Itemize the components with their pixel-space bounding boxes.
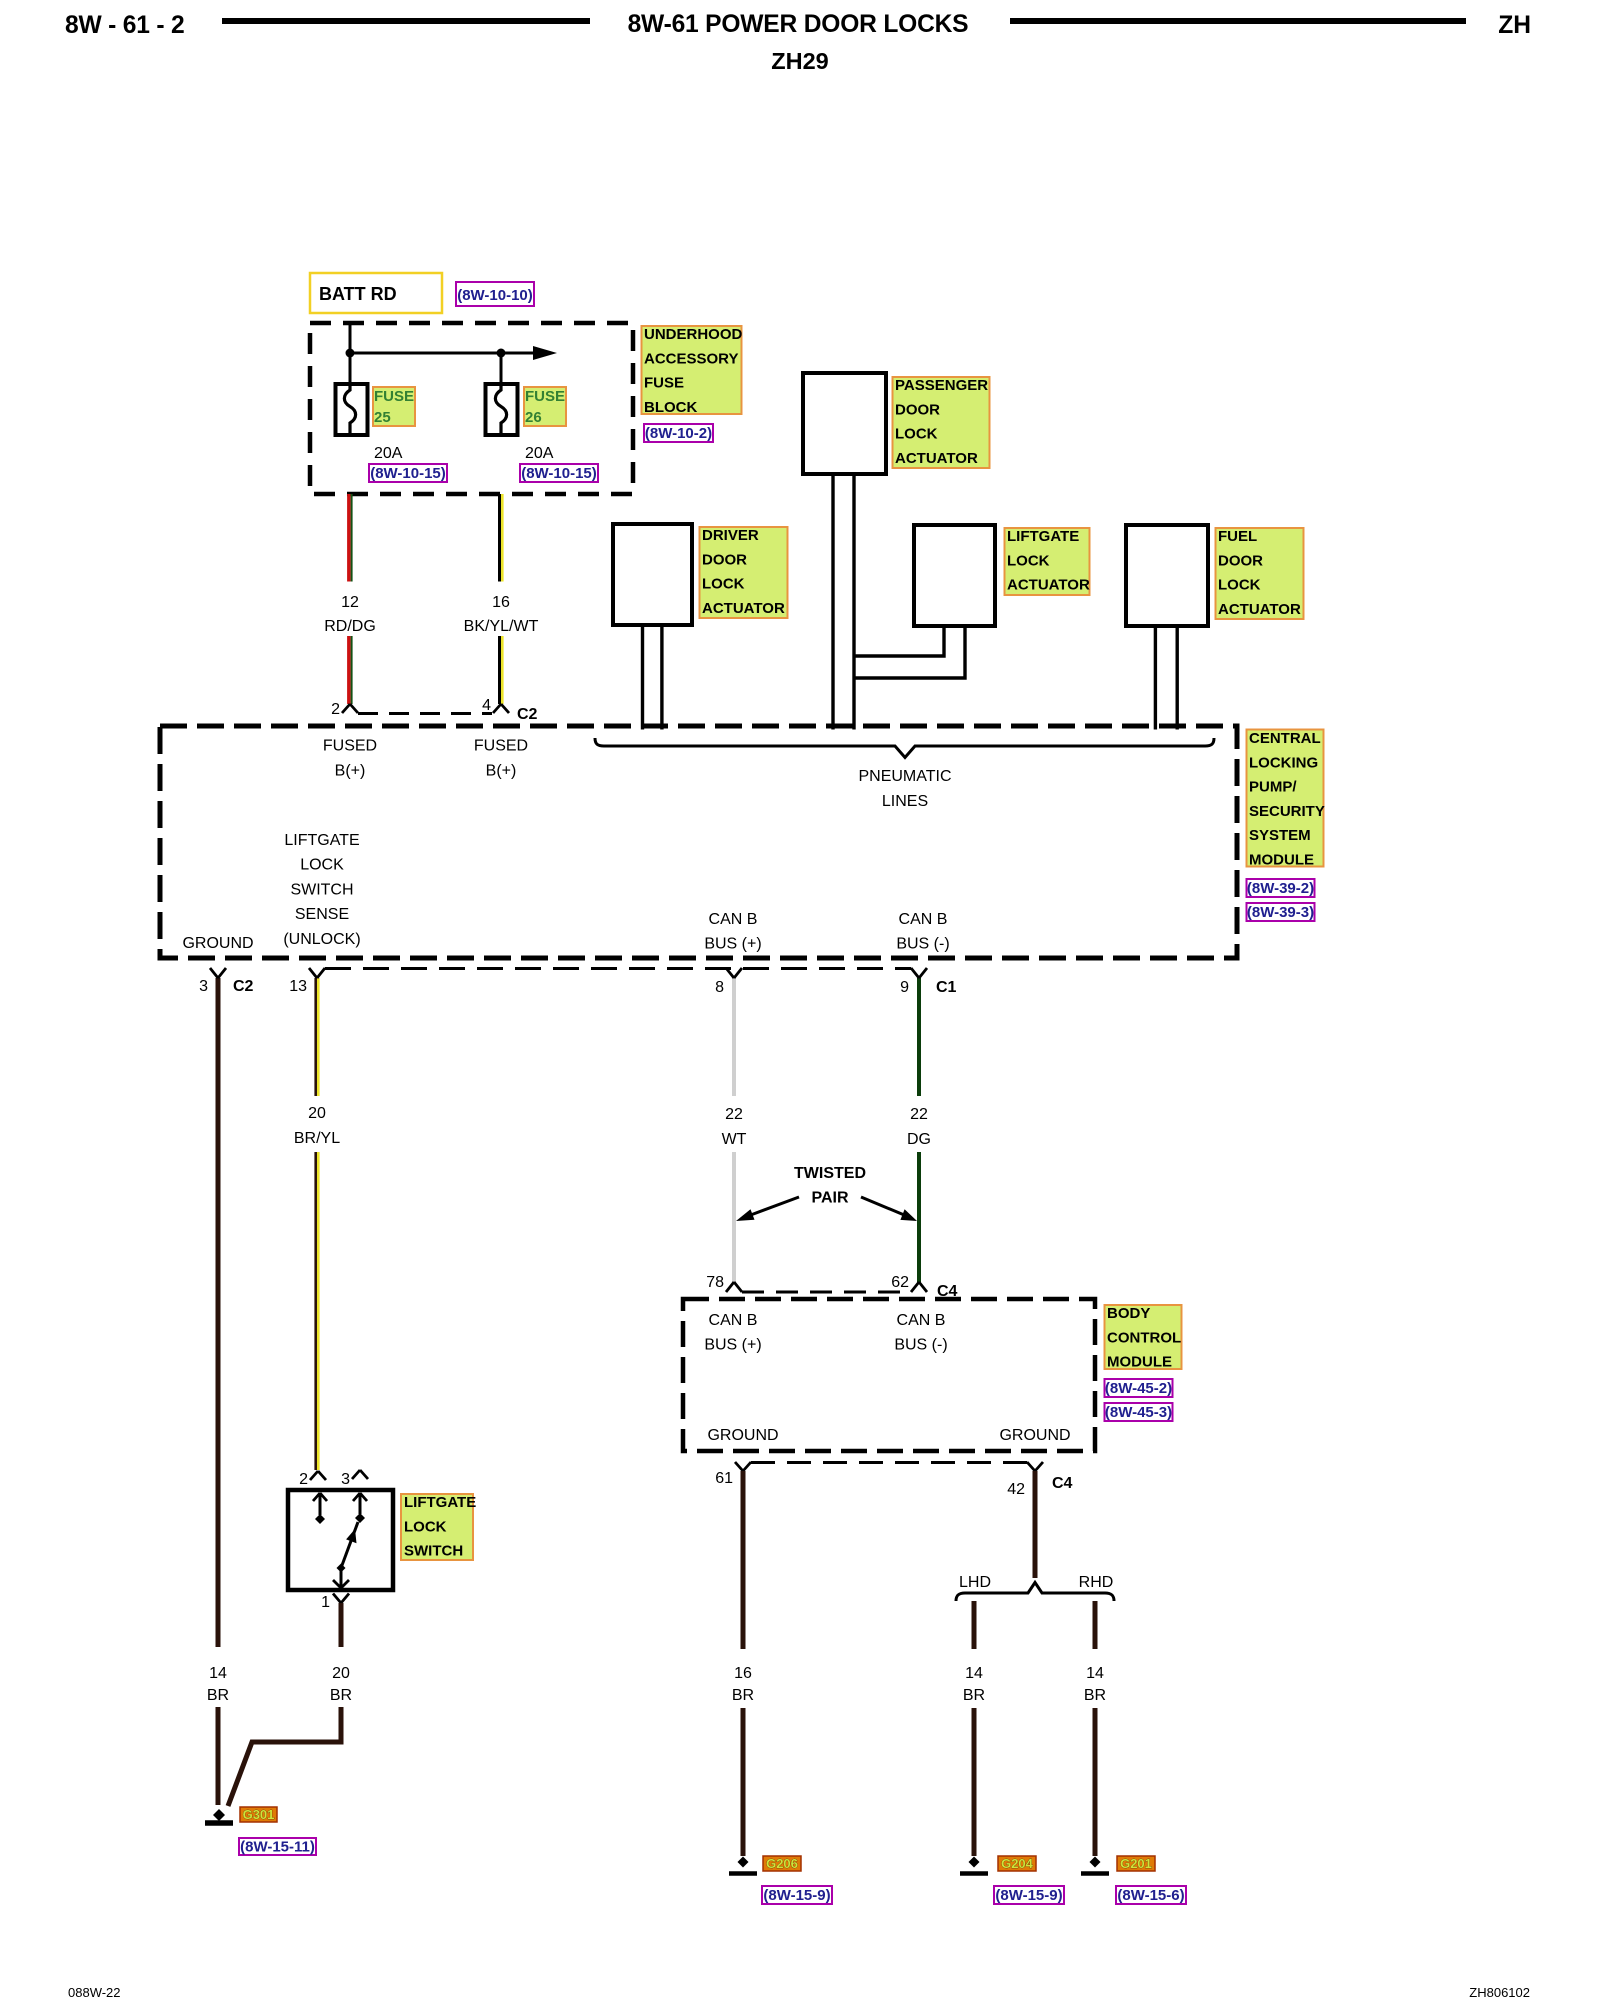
passenger door lock actuator box [803, 373, 886, 474]
svg-text:16: 16 [734, 1665, 752, 1682]
link 8W-15-9 (G206) [762, 1886, 832, 1904]
label G301 [240, 1807, 277, 1822]
svg-text:088W-22: 088W-22 [68, 1985, 121, 2000]
body control module dashed box [683, 1299, 1095, 1451]
svg-text:(8W-10-10): (8W-10-10) [457, 287, 533, 304]
node BATT RD [310, 273, 442, 313]
svg-text:9: 9 [900, 979, 909, 996]
wire batt feed into fuse 25 [349, 323, 352, 384]
svg-text:ZH: ZH [1498, 12, 1531, 39]
svg-text:DG: DG [907, 1131, 931, 1148]
svg-text:CAN B: CAN B [709, 911, 758, 928]
switch lever with arrowhead [341, 1522, 358, 1568]
driver door lock actuator box [613, 524, 692, 625]
svg-text:MODULE: MODULE [1249, 852, 1314, 869]
svg-text:2: 2 [331, 701, 340, 718]
wire into fuse 26 [500, 353, 503, 384]
svg-text:(8W-15-6): (8W-15-6) [1117, 1887, 1184, 1904]
label G204 [998, 1856, 1036, 1871]
link 8W-10-10 [456, 282, 534, 306]
svg-text:DOOR: DOOR [702, 551, 747, 568]
wire BR LHD (lower) [972, 1708, 977, 1856]
pneumatic line (liftgate left) joining passenger line [854, 626, 944, 656]
svg-text:FUSE: FUSE [525, 388, 565, 405]
svg-text:20: 20 [308, 1105, 326, 1122]
label FUSE 26 [524, 387, 566, 426]
svg-text:4: 4 [482, 697, 491, 714]
header right rule [1010, 18, 1466, 24]
svg-text:BLOCK: BLOCK [644, 399, 697, 416]
wire BR/YL from pin 13 (lower) [316, 1152, 319, 1470]
svg-text:(8W-15-9): (8W-15-9) [763, 1887, 830, 1904]
svg-text:(8W-15-9): (8W-15-9) [995, 1887, 1062, 1904]
svg-text:GROUND: GROUND [999, 1427, 1070, 1444]
wire BR RHD (lower) [1093, 1708, 1098, 1856]
svg-text:BK/YL/WT: BK/YL/WT [464, 618, 539, 635]
wire BR/YL from pin 13 (upper) [316, 978, 319, 1096]
wire WT CAN B bus + (upper) [732, 978, 736, 1096]
svg-text:(8W-45-3): (8W-45-3) [1105, 1404, 1172, 1421]
svg-text:C2: C2 [233, 978, 254, 995]
svg-text:FUSED: FUSED [474, 738, 528, 755]
svg-text:ZH806102: ZH806102 [1469, 1985, 1530, 2000]
svg-text:TWISTED: TWISTED [794, 1165, 866, 1182]
wire BR from pin 3 (lower) [216, 1707, 221, 1805]
link 8W-45-2 [1105, 1379, 1173, 1397]
wire BR from pin 61 (lower) [741, 1708, 746, 1856]
junction node at fuse 25 feed [346, 349, 355, 358]
svg-text:LIFTGATE: LIFTGATE [1007, 528, 1079, 545]
svg-text:DOOR: DOOR [1218, 552, 1263, 569]
svg-text:ACCESSORY: ACCESSORY [644, 350, 738, 367]
ground G206 [729, 1857, 757, 1874]
svg-text:CONTROL: CONTROL [1107, 1329, 1181, 1346]
svg-text:FUSE: FUSE [374, 388, 414, 405]
pneumatic line pair (fuel) [1155, 626, 1177, 730]
connector C2 pin 4 [482, 697, 537, 723]
svg-text:LOCK: LOCK [300, 857, 344, 874]
svg-text:22: 22 [910, 1106, 928, 1123]
connector C4 pin 61 [715, 1462, 751, 1487]
svg-text:8: 8 [715, 979, 724, 996]
connector C2 pin 2 [331, 701, 358, 718]
svg-text:61: 61 [715, 1470, 733, 1487]
ground G301 [205, 1809, 233, 1823]
svg-text:CAN B: CAN B [897, 1312, 946, 1329]
fuse F25 [336, 384, 368, 435]
link 8W-10-15 (F25) [369, 464, 447, 482]
svg-text:PASSENGER: PASSENGER [895, 377, 988, 394]
svg-text:G204: G204 [1001, 1856, 1034, 1871]
svg-text:13: 13 [289, 978, 307, 995]
svg-text:C4: C4 [1052, 1475, 1073, 1492]
svg-text:PUMP/: PUMP/ [1249, 779, 1297, 796]
svg-text:3: 3 [341, 1471, 350, 1488]
svg-text:LOCK: LOCK [1218, 577, 1261, 594]
svg-text:22: 22 [725, 1106, 743, 1123]
svg-text:3: 3 [199, 978, 208, 995]
svg-text:FUEL: FUEL [1218, 528, 1257, 545]
switch pin 3 [341, 1470, 368, 1488]
svg-text:ACTUATOR: ACTUATOR [702, 600, 785, 617]
svg-text:LIFTGATE: LIFTGATE [284, 832, 359, 849]
label CENTRAL LOCKING PUMP/SECURITY SYSTEM MODULE [1247, 730, 1325, 869]
liftgate lock actuator box [914, 525, 995, 626]
junction node at fuse 26 feed [497, 349, 506, 358]
wire WT CAN B bus + (lower) [732, 1152, 736, 1282]
svg-text:12: 12 [341, 594, 359, 611]
wire BR from switch pin 1 to G301 [228, 1707, 341, 1806]
connector C1 dashed tie line (module bottom) [325, 967, 911, 970]
ground G201 [1081, 1857, 1109, 1874]
svg-text:BR: BR [1084, 1687, 1106, 1704]
fuel door lock actuator box [1126, 525, 1208, 626]
svg-text:CAN B: CAN B [899, 911, 948, 928]
svg-text:B(+): B(+) [335, 763, 366, 780]
wire DG CAN B bus - (upper) [917, 978, 921, 1096]
label PASSENGER DOOR LOCK ACTUATOR [893, 377, 990, 468]
svg-text:FUSE: FUSE [644, 375, 684, 392]
wire RD/DG from fuse 25 (lower segment) [349, 636, 352, 704]
svg-text:GROUND: GROUND [707, 1427, 778, 1444]
wire BR from pin 61 (upper) [741, 1471, 746, 1649]
svg-text:20A: 20A [374, 445, 403, 462]
switch common contact node [337, 1564, 346, 1573]
svg-text:LINES: LINES [882, 793, 928, 810]
wire DG CAN B bus - (lower) [917, 1152, 921, 1282]
svg-text:(UNLOCK): (UNLOCK) [283, 931, 360, 948]
svg-text:LOCK: LOCK [895, 426, 938, 443]
liftgate lock switch S1 [288, 1490, 393, 1590]
svg-text:BUS (-): BUS (-) [896, 936, 949, 953]
label G206 [763, 1856, 801, 1871]
svg-text:BUS (+): BUS (+) [704, 1336, 761, 1353]
ground G204 [960, 1857, 988, 1874]
pneumatic line pair (passenger) [833, 474, 854, 730]
switch contact (pin 3 side) [353, 1493, 367, 1523]
svg-text:14: 14 [209, 1665, 227, 1682]
underhood accessory fuse block dashed box [310, 323, 633, 494]
link 8W-39-2 [1247, 879, 1315, 897]
label FUSE 25 [373, 387, 415, 426]
central locking pump module dashed box [160, 726, 1237, 958]
svg-text:14: 14 [1086, 1665, 1104, 1682]
twisted pair arrow right [861, 1197, 917, 1221]
wire BR LHD (upper) [972, 1601, 977, 1649]
svg-text:(8W-45-2): (8W-45-2) [1105, 1380, 1172, 1397]
svg-text:26: 26 [525, 409, 542, 426]
svg-text:ZH29: ZH29 [771, 48, 828, 74]
fuse F26 [486, 384, 518, 435]
wire BR from pin 42 to LHD/RHD split [1033, 1471, 1038, 1578]
svg-text:(8W-39-3): (8W-39-3) [1247, 904, 1314, 921]
link 8W-15-9 (G204) [994, 1886, 1064, 1904]
svg-text:CENTRAL: CENTRAL [1249, 730, 1321, 747]
svg-text:DOOR: DOOR [895, 401, 940, 418]
label DRIVER DOOR LOCK ACTUATOR [700, 527, 788, 618]
switch common arrow to pin 1 [333, 1568, 349, 1588]
svg-text:PNEUMATIC: PNEUMATIC [858, 768, 951, 785]
wire BK/YL/WT from fuse 26 (upper segment) [500, 494, 503, 582]
svg-text:(8W-10-15): (8W-10-15) [521, 465, 597, 482]
svg-text:BR: BR [963, 1687, 985, 1704]
svg-text:BUS (+): BUS (+) [704, 936, 761, 953]
wire bus to fuse 26 with arrow [350, 352, 536, 355]
connector C4 dashed tie line (BCM bottom) [751, 1461, 1027, 1464]
svg-text:GROUND: GROUND [182, 935, 253, 952]
connector C2 dashed tie line (top) [358, 712, 492, 715]
svg-text:FUSED: FUSED [323, 738, 377, 755]
svg-text:WT: WT [722, 1131, 747, 1148]
svg-text:8W - 61 - 2: 8W - 61 - 2 [65, 12, 184, 39]
svg-text:BR: BR [330, 1687, 352, 1704]
switch contact (pin 2 side) [313, 1493, 327, 1524]
wire RD/DG from fuse 25 (upper segment) [349, 494, 352, 582]
link 8W-45-3 [1105, 1403, 1173, 1421]
connector C1 pin 9 [900, 968, 956, 996]
link 8W-10-15 (F26) [520, 464, 598, 482]
label FUEL DOOR LOCK ACTUATOR [1216, 528, 1304, 619]
svg-text:78: 78 [706, 1274, 724, 1291]
svg-text:42: 42 [1007, 1481, 1025, 1498]
svg-text:BATT RD: BATT RD [319, 284, 397, 304]
pneumatic lines brace [595, 738, 1214, 758]
svg-text:BR/YL: BR/YL [294, 1130, 340, 1147]
svg-text:SYSTEM: SYSTEM [1249, 827, 1311, 844]
svg-text:CAN B: CAN B [709, 1312, 758, 1329]
pneumatic line pair (driver) [643, 625, 662, 730]
svg-text:1: 1 [321, 1594, 330, 1611]
svg-text:20A: 20A [525, 445, 554, 462]
label G201 [1117, 1856, 1155, 1871]
svg-text:LIFTGATE: LIFTGATE [404, 1494, 476, 1511]
svg-text:G206: G206 [766, 1856, 798, 1871]
svg-text:PAIR: PAIR [811, 1190, 848, 1207]
svg-text:LOCK: LOCK [702, 576, 745, 593]
svg-text:ACTUATOR: ACTUATOR [1007, 577, 1090, 594]
label UNDERHOOD ACCESSORY FUSE BLOCK [642, 326, 743, 416]
connector C2 pin 13 [289, 968, 325, 995]
link 8W-15-6 (G201) [1116, 1886, 1186, 1904]
switch pin 2 [299, 1471, 326, 1488]
label LIFTGATE LOCK SWITCH [401, 1494, 476, 1560]
connector C4 dashed tie line (BCM top) [742, 1291, 911, 1294]
svg-text:DRIVER: DRIVER [702, 527, 759, 544]
svg-text:BUS (-): BUS (-) [894, 1336, 947, 1353]
svg-text:2: 2 [299, 1471, 308, 1488]
svg-text:8W-61 POWER DOOR LOCKS: 8W-61 POWER DOOR LOCKS [628, 11, 969, 38]
svg-text:(8W-10-2): (8W-10-2) [645, 425, 712, 442]
pneumatic line (liftgate right) joining passenger line [854, 626, 965, 678]
svg-text:14: 14 [965, 1665, 983, 1682]
switch pin 1 [321, 1594, 349, 1612]
header left rule [222, 18, 590, 24]
label BODY CONTROL MODULE [1105, 1305, 1182, 1371]
svg-text:62: 62 [891, 1274, 909, 1291]
svg-text:BODY: BODY [1107, 1305, 1150, 1322]
LHD/RHD brace [956, 1583, 1114, 1602]
connector C4 pin 42 [1007, 1462, 1072, 1498]
svg-text:SWITCH: SWITCH [290, 881, 353, 898]
svg-text:(8W-10-15): (8W-10-15) [370, 465, 446, 482]
wire BR RHD (upper) [1093, 1601, 1098, 1649]
svg-text:ACTUATOR: ACTUATOR [895, 450, 978, 467]
wire BR from switch pin 1 (upper) [339, 1603, 344, 1647]
svg-text:(8W-15-11): (8W-15-11) [240, 1839, 315, 1856]
svg-text:SWITCH: SWITCH [404, 1543, 463, 1560]
svg-text:25: 25 [374, 409, 391, 426]
link 8W-15-11 [239, 1838, 316, 1856]
svg-text:(8W-39-2): (8W-39-2) [1247, 880, 1314, 897]
svg-text:SECURITY: SECURITY [1249, 803, 1325, 820]
wire BK/YL/WT from fuse 26 (lower segment) [500, 636, 503, 704]
connector C2 pin 3 [199, 968, 253, 995]
module label LIFTGATE LOCK SWITCH SENSE (UNLOCK) [283, 832, 360, 948]
svg-text:C2: C2 [517, 706, 538, 723]
svg-text:LOCK: LOCK [404, 1518, 447, 1535]
svg-text:RHD: RHD [1079, 1574, 1114, 1591]
svg-text:20: 20 [332, 1665, 350, 1682]
link 8W-10-2 [644, 424, 713, 442]
link 8W-39-3 [1247, 903, 1315, 921]
label LIFTGATE LOCK ACTUATOR [1005, 528, 1090, 595]
svg-text:LHD: LHD [959, 1574, 991, 1591]
svg-text:G301: G301 [243, 1807, 275, 1822]
connector C1 pin 8 [715, 968, 742, 996]
svg-text:BR: BR [732, 1687, 754, 1704]
connector C4 pin 78 [706, 1274, 742, 1292]
svg-text:BR: BR [207, 1687, 229, 1704]
connector C4 pin 62 [891, 1274, 957, 1300]
svg-text:UNDERHOOD: UNDERHOOD [644, 326, 743, 343]
twisted pair arrow left [736, 1197, 799, 1221]
svg-text:16: 16 [492, 594, 510, 611]
svg-text:C1: C1 [936, 979, 957, 996]
svg-text:LOCKING: LOCKING [1249, 754, 1318, 771]
svg-text:B(+): B(+) [486, 763, 517, 780]
svg-text:G201: G201 [1120, 1856, 1152, 1871]
svg-text:RD/DG: RD/DG [324, 618, 376, 635]
svg-text:LOCK: LOCK [1007, 552, 1050, 569]
wire BR from pin 3 (upper) [216, 978, 221, 1647]
svg-text:SENSE: SENSE [295, 906, 349, 923]
svg-text:MODULE: MODULE [1107, 1354, 1172, 1371]
svg-text:ACTUATOR: ACTUATOR [1218, 601, 1301, 618]
